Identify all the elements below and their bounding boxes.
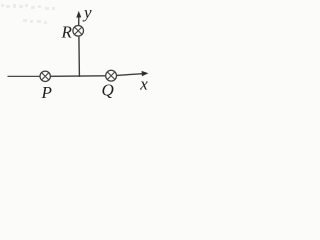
svg-text:Q: Q [102,81,114,100]
symbol P: circled cross (into page) [40,71,50,81]
wire y-axis upper segment [78,17,80,26]
svg-text:R: R [61,23,73,42]
wire y-axis lower segment [78,37,81,77]
wire x-axis right segment [117,74,143,76]
ghost show-through text top-left [1,4,55,24]
svg-text:y: y [82,3,92,22]
wire x-axis middle segment [51,75,106,78]
wire x-axis left segment [8,75,40,77]
symbol R: circled cross (into page) [73,26,84,37]
svg-text:x: x [139,75,148,94]
arrowhead y-axis [76,11,81,18]
symbol Q: circled cross (into page) [106,70,117,81]
arrowhead x-axis [142,71,149,76]
svg-text:P: P [41,83,52,102]
